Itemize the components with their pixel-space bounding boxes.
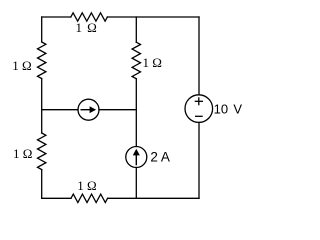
resistor R5 (bottom, 1 ohm) (71, 194, 108, 202)
svg-text:1 Ω: 1 Ω (13, 146, 32, 161)
resistor R3 (lower-left, 1 ohm) (38, 133, 46, 170)
svg-text:1 Ω: 1 Ω (77, 178, 96, 193)
wire: left branch middle segment (41, 79, 43, 133)
current source I2 arrow (points up) (133, 149, 140, 166)
wire: bottom-right segment (108, 197, 199, 199)
resistor R2 (upper-left, 1 ohm) (38, 42, 46, 79)
svg-text:Ω: Ω (87, 20, 97, 35)
current source I1 arrow (points right) (81, 106, 97, 113)
wire: right branch lower segment (198, 122, 200, 198)
label: 1 ohm (R1, top) (76, 20, 97, 35)
wire: middle branch between R4 and node (135, 79, 137, 147)
wire: left branch upper stub (41, 17, 43, 42)
svg-text:10: 10 (214, 102, 228, 117)
voltage source V1 minus sign (195, 115, 203, 117)
wire: right branch upper segment (198, 17, 200, 95)
wire: bottom-left segment (42, 197, 71, 199)
current source I1 circle (78, 99, 99, 120)
wire: top-right segment (107, 16, 199, 18)
svg-text:1 Ω: 1 Ω (142, 55, 161, 70)
wire: middle horizontal left segment (42, 109, 78, 111)
resistor R1 (top, 1 ohm) (71, 13, 108, 21)
wire: middle horizontal right segment (99, 109, 136, 111)
wire: left branch lower stub (41, 170, 43, 199)
voltage source V1 (10 V) circle (185, 95, 213, 123)
wire: middle branch top stub (135, 17, 137, 42)
label: 10 V (voltage source V1) (214, 102, 243, 117)
svg-text:2 A: 2 A (150, 149, 170, 164)
svg-text:1 Ω: 1 Ω (12, 58, 31, 73)
wire: middle branch bottom stub (135, 168, 137, 199)
svg-text:1: 1 (76, 20, 83, 35)
voltage source V1 plus sign (195, 97, 203, 105)
current source I2 (2 A) circle (126, 147, 147, 168)
wire: top-left segment (42, 16, 71, 18)
svg-text:V: V (233, 102, 242, 117)
resistor R4 (middle, 1 ohm) (132, 42, 140, 79)
